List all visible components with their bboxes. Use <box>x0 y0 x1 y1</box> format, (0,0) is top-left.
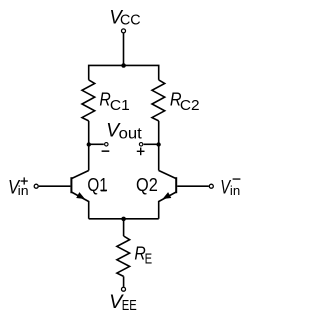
wire RE to VEE terminal <box>123 276 125 286</box>
junction dot vout minus <box>87 142 91 146</box>
svg-text:CC: CC <box>120 12 141 29</box>
terminal VEE <box>122 287 126 291</box>
svg-text:EE: EE <box>122 297 137 314</box>
wire RC2 to collector Q2 <box>158 121 160 171</box>
junction dot emitter rail <box>121 217 126 222</box>
wire Vin+ to base Q1 <box>39 185 71 187</box>
wire emitter rail <box>89 218 159 220</box>
svg-text:C2: C2 <box>180 97 200 114</box>
terminal vout minus <box>105 143 109 147</box>
label Vin- <box>220 178 240 199</box>
label plus sign <box>137 148 145 156</box>
wire RC1 to collector Q1 <box>88 121 90 171</box>
label RC2 <box>170 90 200 115</box>
power label VCC <box>109 7 140 28</box>
svg-text:C1: C1 <box>110 97 130 114</box>
label RC1 <box>99 90 129 115</box>
svg-text:Q2: Q2 <box>136 174 158 195</box>
wire top rail <box>89 65 159 80</box>
resistor RE <box>117 236 130 276</box>
terminal VCC <box>122 29 126 33</box>
svg-text:in: in <box>18 184 29 198</box>
resistor RC2 <box>152 80 165 121</box>
label Vout <box>106 121 142 143</box>
wire emitter rail to RE <box>123 219 125 236</box>
terminal Vin+ <box>34 184 38 188</box>
power label VEE <box>109 292 137 314</box>
svg-text:Q1: Q1 <box>87 174 107 195</box>
resistor RC1 <box>82 80 95 121</box>
label RE <box>134 244 152 268</box>
wire base Q2 to Vin- <box>177 185 209 187</box>
svg-text:in: in <box>230 184 240 198</box>
wire vout plus stub <box>144 143 159 145</box>
transistor Q2 <box>159 171 177 219</box>
label Q2 <box>136 174 158 195</box>
transistor Q1 <box>71 171 88 219</box>
svg-text:out: out <box>119 126 143 143</box>
label Vin+ <box>8 177 29 198</box>
junction dot vout plus <box>156 142 160 146</box>
label minus sign <box>102 150 110 152</box>
junction dot top rail <box>121 63 126 68</box>
wire VCC terminal to top rail <box>123 33 125 65</box>
wire vout minus stub <box>89 143 104 145</box>
svg-text:E: E <box>145 251 153 268</box>
terminal Vin- <box>209 184 213 188</box>
terminal vout plus <box>139 143 143 147</box>
label Q1 <box>87 174 107 195</box>
